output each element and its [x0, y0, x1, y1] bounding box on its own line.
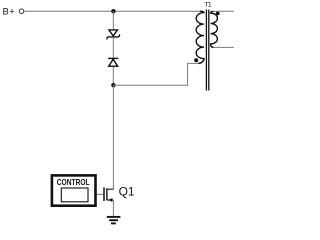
- diode D2: [108, 58, 118, 66]
- ground: [107, 217, 121, 224]
- wire secondary bottom lead: [214, 46, 234, 48]
- svg-text:CONTROL: CONTROL: [57, 177, 90, 187]
- junction middle: [111, 83, 115, 87]
- transformer T1 primary winding: [196, 11, 204, 63]
- transformer T1 primary phasing dot: [194, 58, 198, 62]
- wire middle junction to primary bottom: [113, 63, 198, 85]
- control block: [52, 175, 96, 205]
- terminal B+: [19, 9, 24, 14]
- wire drain vertical: [112, 85, 114, 189]
- wire gate lead: [88, 193, 103, 195]
- zener diode D1: [107, 30, 120, 40]
- wire source vertical: [112, 200, 114, 216]
- wire secondary top lead: [213, 10, 234, 12]
- transformer T1 secondary winding: [211, 11, 218, 47]
- svg-text:B+: B+: [3, 7, 16, 18]
- wire top horizontal: [24, 10, 200, 12]
- svg-text:T1: T1: [205, 2, 212, 9]
- transistor Q1: [104, 187, 113, 202]
- wire between diodes: [112, 38, 114, 58]
- transformer T1 secondary phasing dot: [216, 12, 220, 16]
- transformer T1 core: [206, 10, 208, 91]
- svg-text:Q1: Q1: [119, 185, 135, 199]
- wire diode to middle junction: [112, 67, 114, 85]
- junction top: [111, 9, 115, 13]
- wire top junction to zener: [112, 11, 114, 30]
